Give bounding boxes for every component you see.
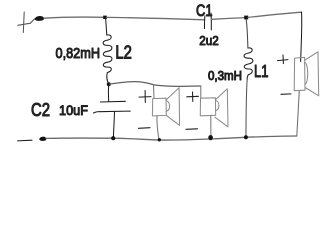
svg-text:0,3mH: 0,3mH xyxy=(208,69,242,83)
svg-text:C1: C1 xyxy=(196,1,213,20)
woofer SP2 minus mark xyxy=(186,128,198,131)
terminal blob OUT- xyxy=(40,137,47,141)
wire mid rail to woofers xyxy=(109,82,201,87)
svg-text:0,82mH: 0,82mH xyxy=(56,45,101,62)
node B junction (L1 tap) xyxy=(244,16,248,20)
tweeter SP3 xyxy=(294,52,319,96)
terminal dash OUT- xyxy=(18,139,33,142)
terminal blob IN+ xyxy=(35,16,44,20)
wire woofer SP1 bottom stem xyxy=(157,116,159,140)
wire bottom rail xyxy=(46,136,297,140)
node G junction (L1 bottom) xyxy=(244,135,248,139)
capacitor C1 xyxy=(204,13,211,30)
svg-text:2u2: 2u2 xyxy=(199,33,219,48)
inductor L2 xyxy=(103,18,112,84)
svg-text:C2: C2 xyxy=(31,100,50,120)
tweeter SP3 minus mark xyxy=(281,93,291,95)
node D junction (C2 bottom) xyxy=(111,136,115,140)
wire top rail: node B to top-right corner and down to tweeter xyxy=(248,12,302,17)
svg-text:L1: L1 xyxy=(254,61,269,81)
wire woofer SP2 bottom stem xyxy=(210,116,212,136)
wire woofer SP1 top stem xyxy=(153,85,156,99)
wire woofer SP2 top stem xyxy=(200,86,202,98)
woofer SP2 plus mark xyxy=(187,92,199,102)
tweeter SP3 plus mark xyxy=(278,55,289,64)
wire tweeter bottom stem xyxy=(297,91,300,136)
svg-text:L2: L2 xyxy=(115,43,131,63)
woofer SP1 minus mark xyxy=(139,127,151,130)
wire top rail: node A to C1 xyxy=(107,17,205,19)
wire top rail: input to node A xyxy=(44,17,104,18)
woofer SP1 xyxy=(152,88,179,126)
node C junction (L2 bottom / C2 / mid rail) xyxy=(107,82,111,86)
node F junction (SP2 bottom) xyxy=(208,135,213,140)
capacitor C2 xyxy=(94,84,131,137)
svg-text:10uF: 10uF xyxy=(59,102,88,118)
input terminal IN+ (cross) xyxy=(18,12,36,33)
inductor L1 xyxy=(244,19,253,136)
node A junction (L2 tap) xyxy=(103,16,107,19)
woofer SP2 xyxy=(200,89,228,127)
woofer SP1 plus mark xyxy=(139,91,151,103)
node E junction (SP1 bottom) xyxy=(158,138,161,141)
wire top rail: C1 to node B xyxy=(212,18,246,20)
